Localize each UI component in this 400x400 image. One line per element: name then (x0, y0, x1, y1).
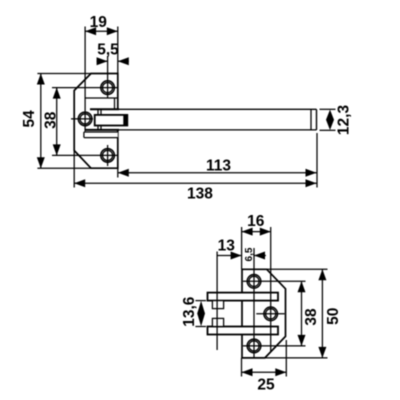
svg-text:113: 113 (206, 158, 231, 175)
svg-text:16: 16 (247, 213, 265, 230)
svg-text:38: 38 (303, 308, 320, 326)
svg-text:6,5: 6,5 (244, 247, 255, 261)
svg-text:19: 19 (90, 14, 108, 31)
svg-text:12,3: 12,3 (336, 105, 353, 136)
svg-text:138: 138 (187, 186, 213, 203)
svg-text:25: 25 (257, 377, 275, 394)
svg-text:13: 13 (218, 238, 236, 255)
svg-text:38: 38 (43, 111, 60, 129)
svg-text:54: 54 (21, 110, 38, 128)
svg-text:50: 50 (325, 308, 342, 325)
svg-text:13,6: 13,6 (181, 296, 198, 327)
svg-text:5,5: 5,5 (97, 41, 119, 58)
